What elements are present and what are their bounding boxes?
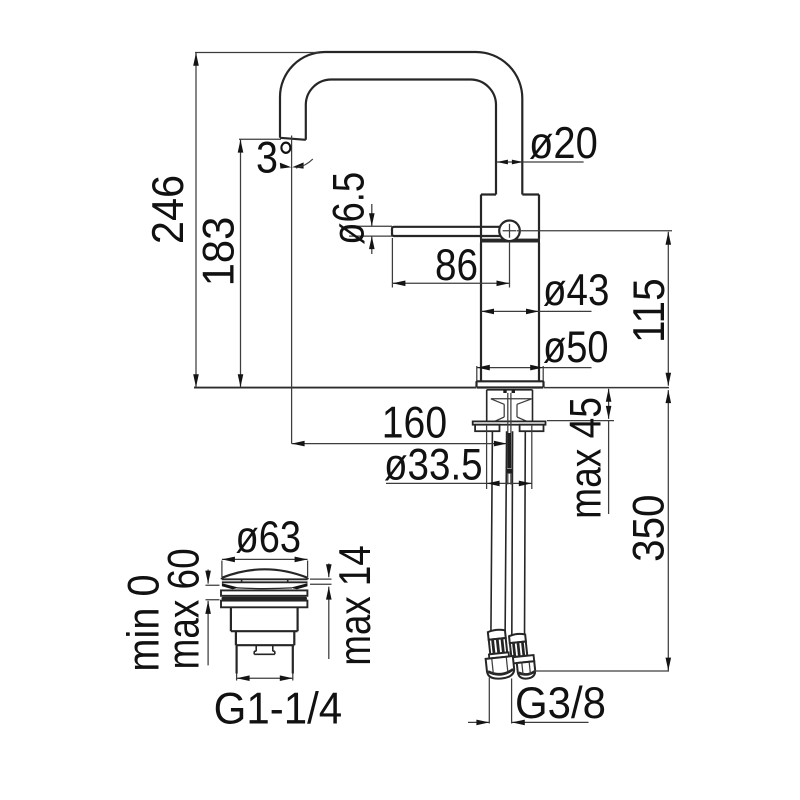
base plate xyxy=(477,381,544,387)
spout outlet end cut xyxy=(280,138,306,140)
label max14 xyxy=(331,545,380,665)
dimension G1-1/4 line xyxy=(237,675,293,681)
svg-text:G1-1/4: G1-1/4 xyxy=(214,684,343,733)
svg-text:86: 86 xyxy=(435,241,478,290)
label 86 xyxy=(435,241,478,290)
svg-text:ø6.5: ø6.5 xyxy=(324,172,373,245)
label o63 xyxy=(236,513,302,562)
label o20 xyxy=(529,119,598,168)
drain ø63 dome cap xyxy=(222,569,308,579)
hose connector left crimp collar xyxy=(488,629,508,654)
dimension 160 line xyxy=(292,441,507,447)
hose connector left nut xyxy=(485,652,515,680)
pull rod xyxy=(506,393,513,485)
svg-text:350: 350 xyxy=(624,495,673,562)
lever handle rod xyxy=(392,227,504,236)
dimension 246 line xyxy=(193,53,199,387)
supply hose right xyxy=(512,431,526,639)
spout outer contour xyxy=(280,52,522,195)
dimension max14 extension lines xyxy=(310,579,332,584)
mounting washer flange xyxy=(473,421,546,424)
lever ball joint xyxy=(499,221,520,242)
drain seal washer top xyxy=(222,582,308,589)
body joint dark band xyxy=(480,239,540,243)
drain cap neck xyxy=(242,579,288,582)
dimension o33.5 line xyxy=(386,481,532,487)
dimension 183 extension line xyxy=(239,138,281,140)
hose connector right crimp collar xyxy=(509,633,527,657)
drain body bottom xyxy=(237,645,293,673)
svg-text:ø63: ø63 xyxy=(236,513,302,562)
svg-text:183: 183 xyxy=(194,217,243,287)
svg-text:ø33.5: ø33.5 xyxy=(384,441,483,490)
label G3/8 xyxy=(515,679,606,728)
dimension max45 extension line xyxy=(547,420,614,422)
shank inner spool xyxy=(491,399,532,421)
drain ring lower xyxy=(221,601,307,608)
dimension 86 extension lines xyxy=(392,238,509,288)
countertop deck line left xyxy=(194,387,477,389)
svg-text:246: 246 xyxy=(144,175,193,244)
label o43 xyxy=(543,266,609,315)
body cylinder sides xyxy=(481,243,539,382)
dimension 350 line xyxy=(666,390,672,670)
label G1-1/4 xyxy=(214,684,343,733)
label 3deg xyxy=(256,134,294,183)
svg-text:ø43: ø43 xyxy=(543,266,609,315)
dimension 246 extension line xyxy=(195,52,318,54)
dimension 183 line xyxy=(238,140,244,388)
dimension min0 max60 line xyxy=(205,570,211,666)
drain o-ring dark band xyxy=(222,597,308,600)
dimension max14 line xyxy=(326,564,332,660)
dimension o63 line xyxy=(222,557,308,563)
spout inner contour xyxy=(306,80,496,195)
dimension min0 max60 extension lines xyxy=(206,585,220,600)
dimension o20 line xyxy=(497,160,584,165)
label min0 xyxy=(119,574,168,671)
dimension 86 line xyxy=(392,281,509,287)
svg-text:G3/8: G3/8 xyxy=(515,679,606,728)
dimension G3/8 line xyxy=(468,720,589,726)
drain body middle xyxy=(236,631,294,645)
svg-text:max 60: max 60 xyxy=(159,548,208,669)
label max60 xyxy=(159,548,208,669)
dimension 115 line xyxy=(666,232,672,386)
label 183 xyxy=(194,217,243,287)
svg-text:ø50: ø50 xyxy=(543,323,609,372)
drain cap underside arc xyxy=(237,587,292,590)
hose connector right nut xyxy=(512,655,535,680)
dimension o6.5 line xyxy=(369,204,375,254)
label o33.5 xyxy=(384,441,483,490)
shank seal squares xyxy=(503,390,515,393)
dimension G1-1/4 extension lines xyxy=(237,674,293,681)
dimension 115 extension line xyxy=(517,230,672,232)
label o50 xyxy=(543,323,609,372)
faucet body top cap xyxy=(481,195,539,239)
dimension o50 line xyxy=(477,365,592,371)
dimension o43 line xyxy=(481,309,592,315)
dimension o6.5 extension lines xyxy=(349,226,392,236)
mounting nut left block xyxy=(475,425,499,432)
drain body upper xyxy=(231,607,298,631)
supply hose left xyxy=(491,431,507,636)
drain bottom notch xyxy=(254,646,275,654)
label o6.5 xyxy=(324,172,373,245)
svg-text:ø20: ø20 xyxy=(529,119,598,168)
outlet centerline xyxy=(291,136,293,444)
label 350 xyxy=(624,495,673,562)
dimension o33.5 extension lines xyxy=(487,425,532,489)
dimension o50 extension lines xyxy=(477,366,543,381)
svg-text:max 45: max 45 xyxy=(562,397,611,519)
label max45 xyxy=(562,397,611,519)
label 115 xyxy=(625,278,674,343)
dimension G3/8 extension lines xyxy=(489,678,511,724)
countertop deck line right xyxy=(544,387,670,389)
label 246 xyxy=(144,175,193,244)
drain ring upper xyxy=(221,590,307,595)
threaded shank xyxy=(487,390,533,422)
svg-text:115: 115 xyxy=(625,278,674,343)
mounting nut right block xyxy=(520,425,544,432)
dimension max45 line xyxy=(606,389,612,514)
svg-text:max 14: max 14 xyxy=(331,545,380,665)
label 160 xyxy=(382,399,447,448)
angle 3 degree arrows and arc xyxy=(280,159,313,169)
svg-text:3°: 3° xyxy=(256,134,294,183)
dimension o63 extension lines xyxy=(222,561,308,578)
hose end reference line xyxy=(535,670,670,672)
